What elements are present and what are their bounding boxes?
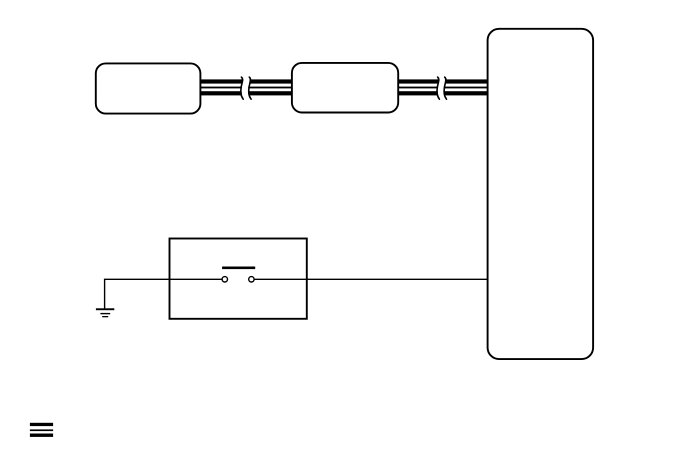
cable break 2 [437, 77, 447, 100]
wire switch right contact to control unit [254, 278, 488, 280]
harness cable 1 (box1 to box2, thick-thin-thick) [200, 79, 292, 95]
component box 2 (middle connector) [292, 63, 398, 113]
control unit box (large, right) [488, 29, 593, 359]
cable legend icon (bottom-left) [30, 423, 53, 437]
cable break 1 [241, 77, 251, 100]
switch contact right [249, 277, 254, 282]
wire ground to switch left contact [105, 279, 223, 308]
switch actuator bar [222, 267, 255, 270]
ground [96, 308, 114, 317]
switch contact left [222, 277, 227, 282]
switch box [170, 239, 307, 319]
harness cable 2 (box2 to control unit, thick-thin-thick) [398, 79, 488, 95]
component box 1 (top-left connector) [96, 63, 201, 113]
